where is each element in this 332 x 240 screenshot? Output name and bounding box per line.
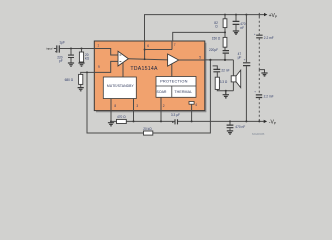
wire pin9 internal to op-amp xyxy=(94,61,118,72)
wire pin4 internal xyxy=(191,104,193,110)
svg-text:MUTE/STANDBY: MUTE/STANDBY xyxy=(107,84,135,88)
node Boucherot/speaker ground xyxy=(225,90,227,92)
resistor R7 3.3 Boucherot xyxy=(215,77,219,89)
svg-text:150 Ω: 150 Ω xyxy=(212,37,221,41)
svg-text:PROTECTION: PROTECTION xyxy=(160,78,188,83)
svg-text:22 nF: 22 nF xyxy=(221,69,229,73)
wire MUTE box to pin8 xyxy=(110,99,112,111)
node output/C3 xyxy=(224,59,226,61)
svg-text:220μF: 220μF xyxy=(209,48,218,52)
resistor R3 680 xyxy=(79,74,83,84)
wire pin4 external xyxy=(191,111,193,122)
dashed single-supply branch xyxy=(258,13,260,17)
capacitor C3 220uF bootstrap xyxy=(223,51,229,54)
IC U1 TDA1514A block shadow xyxy=(96,43,206,113)
wire pin8 external xyxy=(110,111,112,122)
wire pin7 external xyxy=(173,32,225,41)
svg-text:pF: pF xyxy=(59,59,63,63)
wire op-amp A1 to MUTE box xyxy=(122,62,124,77)
svg-text:THERMAL: THERMAL xyxy=(174,90,192,94)
svg-text:680 Ω: 680 Ω xyxy=(65,78,74,82)
svg-text:3: 3 xyxy=(136,104,138,108)
svg-text:input: input xyxy=(46,47,52,51)
wire feedback down and across xyxy=(87,60,210,133)
loudspeaker LS1 xyxy=(232,60,234,76)
op-amp A2 xyxy=(168,54,179,66)
wire pin9 to R3 xyxy=(81,72,95,74)
svg-text:μF: μF xyxy=(238,56,242,60)
capacitor C5 470nF supply xyxy=(235,14,237,16)
resistor R4 20k feedback xyxy=(144,131,153,135)
svg-text:TDA1514A: TDA1514A xyxy=(130,66,158,72)
+Vp arrow xyxy=(264,13,267,16)
wire input xyxy=(54,48,56,50)
wire input cap to pin1 xyxy=(60,48,94,50)
svg-text:4: 4 xyxy=(195,103,197,107)
capacitor C4 22nF Boucherot xyxy=(213,66,218,69)
capacitor C9 3.3uF series xyxy=(175,119,178,124)
wire pin7 internal xyxy=(171,41,173,50)
IC U1 TDA1514A block body xyxy=(94,41,205,111)
svg-text:7: 7 xyxy=(174,43,176,47)
node rail/R5 xyxy=(224,14,226,16)
svg-text:20 kΩ: 20 kΩ xyxy=(143,127,152,131)
capacitor C2 220pF xyxy=(70,49,72,55)
node dashed/-V line xyxy=(258,120,260,122)
svg-text:2.2 mF: 2.2 mF xyxy=(264,36,274,40)
svg-text:3.3 μF: 3.3 μF xyxy=(171,113,180,117)
svg-text:5: 5 xyxy=(199,56,201,60)
wire op-amp A2 to PROTECTION box xyxy=(171,64,173,77)
svg-text:6: 6 xyxy=(147,44,149,48)
ground C10 xyxy=(227,131,233,134)
svg-text:+: + xyxy=(244,57,246,61)
svg-text:9: 9 xyxy=(98,65,100,69)
PROTECTION box xyxy=(156,77,196,98)
node pin4/-V line xyxy=(191,120,193,122)
node pin8/-V line xyxy=(110,120,112,122)
svg-text:470 nF: 470 nF xyxy=(235,125,245,129)
wire pin6 internal xyxy=(144,41,146,59)
ground stub dashed branch xyxy=(259,70,264,73)
wire internal rail pin6 to pin7 xyxy=(145,49,172,51)
node input/R1 xyxy=(81,48,83,50)
wire dashed bottom xyxy=(258,98,260,121)
wire SOAR to pin2 xyxy=(160,97,162,110)
node feedback tap xyxy=(86,71,88,73)
+Vp rail xyxy=(145,15,265,41)
wire pin3 external xyxy=(133,111,135,122)
ground R3 xyxy=(78,88,84,91)
node C6/-V line xyxy=(245,120,247,122)
wire op-amp A2 output to pin5 xyxy=(179,59,205,61)
capacitor C6 47uF xyxy=(245,14,247,16)
wire pin1 internal to op-amp xyxy=(94,49,118,56)
node pin6 junction xyxy=(144,49,146,51)
resistor R1 20k xyxy=(81,49,83,53)
wire dashed lower xyxy=(258,70,260,95)
resistor R8 470 xyxy=(111,120,117,122)
svg-text:8: 8 xyxy=(114,104,116,108)
node input/C2 xyxy=(70,48,72,50)
node pin2/-V line xyxy=(160,120,162,122)
svg-text:kΩ: kΩ xyxy=(85,57,90,61)
wire -V line right xyxy=(178,120,264,122)
ground C2 xyxy=(68,63,74,66)
resistor R5 82 xyxy=(224,15,226,19)
node output/feedback xyxy=(209,59,211,61)
svg-text:1: 1 xyxy=(97,43,99,47)
svg-text:2.2 mF: 2.2 mF xyxy=(264,94,274,98)
wire -V line left xyxy=(126,120,174,122)
ground C5 xyxy=(233,31,239,34)
MUTE/STANDBY box xyxy=(103,77,136,99)
wire dashed mid xyxy=(258,38,260,69)
wire between op-amps xyxy=(128,59,167,60)
svg-text:SOAR: SOAR xyxy=(157,90,167,94)
node C5b/-V line xyxy=(229,120,231,122)
wire pin2 external xyxy=(160,111,162,122)
capacitor C10 470nF supply xyxy=(229,121,231,124)
svg-text:nF: nF xyxy=(240,26,244,30)
ground R1 xyxy=(78,63,84,66)
svg-text:3.3 Ω: 3.3 Ω xyxy=(220,80,228,84)
svg-text:MGD605: MGD605 xyxy=(252,132,265,136)
svg-text:1μF: 1μF xyxy=(59,41,65,45)
svg-text:470 Ω: 470 Ω xyxy=(117,115,126,119)
node pin3/-V line xyxy=(133,120,135,122)
-Vp arrow xyxy=(264,120,267,123)
node pin7/R5/R6 xyxy=(224,31,226,33)
ground speaker xyxy=(223,91,229,98)
svg-text:2: 2 xyxy=(163,104,165,108)
capacitor C1 1uF xyxy=(57,45,60,52)
wire MUTE box to pin3 xyxy=(133,99,135,111)
ground pin8 xyxy=(108,121,114,125)
resistor R6 150 xyxy=(223,37,227,47)
wire output pin5 xyxy=(205,59,234,61)
pin4 square xyxy=(189,102,194,105)
wire dashed from +Vp xyxy=(258,17,260,35)
op-amp A1 xyxy=(118,51,128,66)
